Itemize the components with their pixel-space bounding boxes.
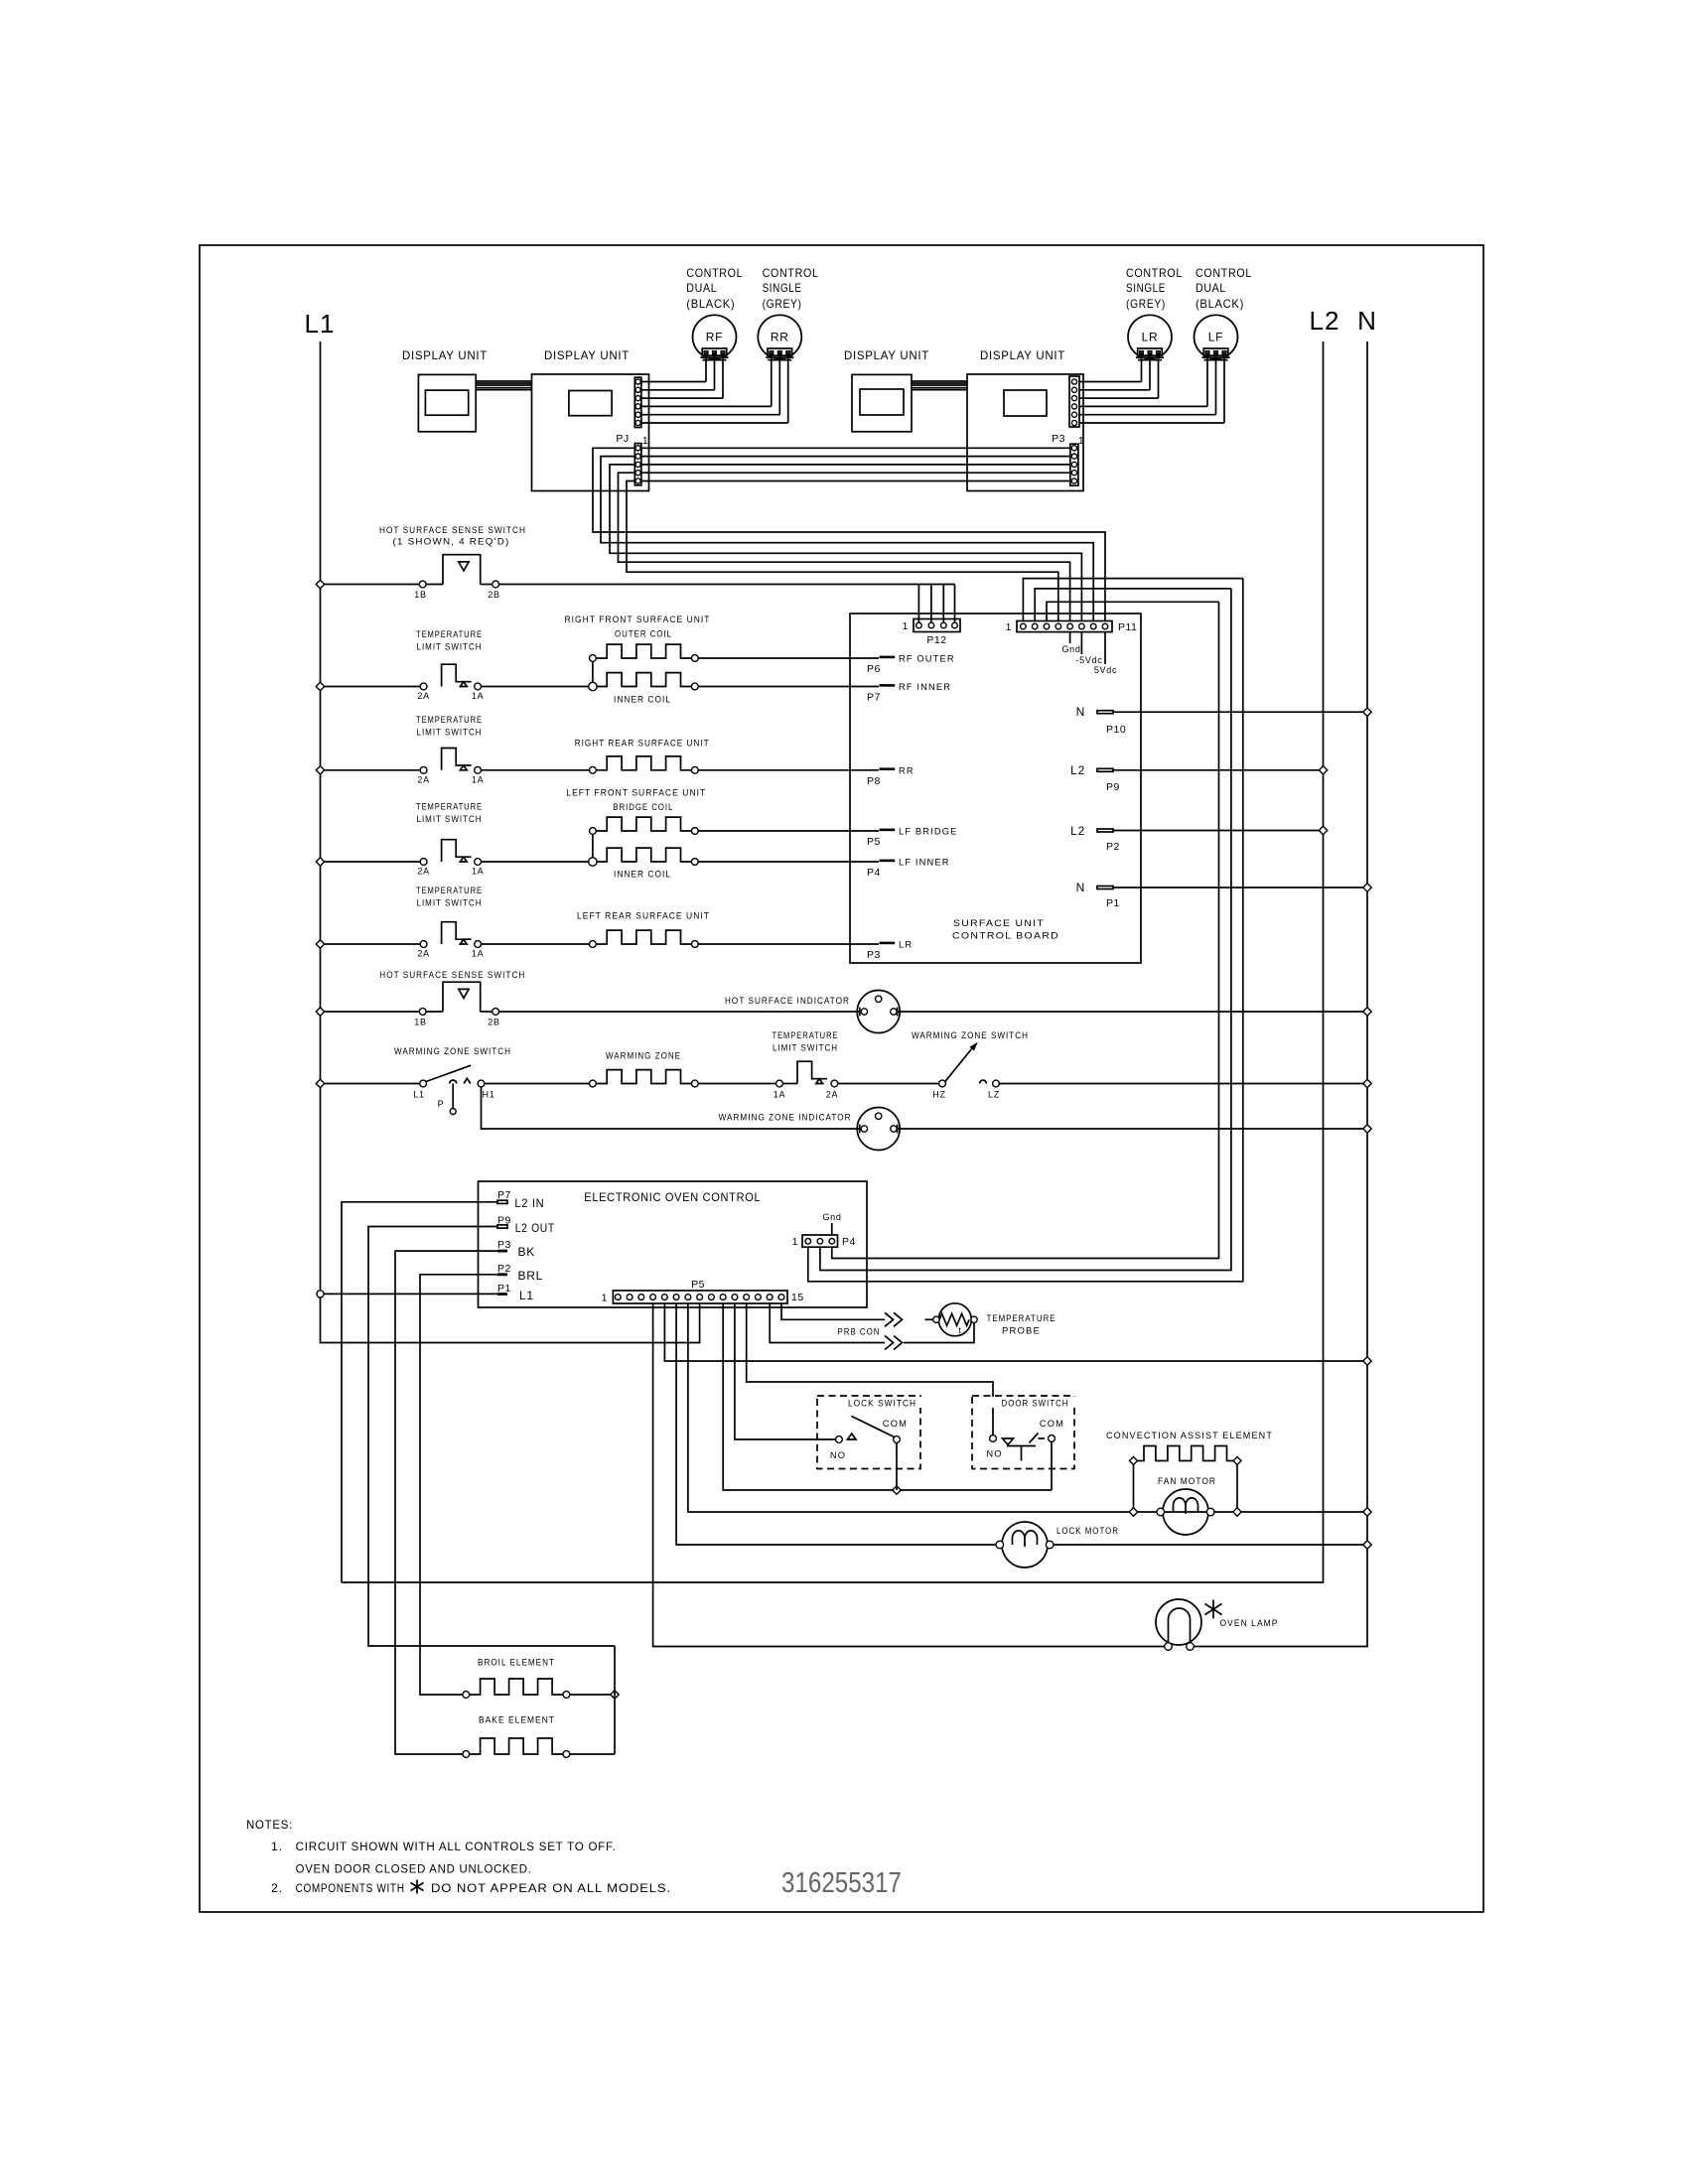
temperature probe body bbox=[938, 1303, 971, 1336]
svg-text:P: P bbox=[438, 1099, 445, 1109]
terminal bake left bbox=[463, 1751, 470, 1758]
wires down to P12 pins (4) bbox=[917, 585, 919, 622]
wire fan motor row bbox=[1138, 1511, 1233, 1513]
svg-text:NO: NO bbox=[830, 1450, 846, 1460]
wires PJ bus taps down and across to P11 pins 8..4 bbox=[593, 448, 1105, 620]
wire junction bridge to inner coil bbox=[592, 834, 594, 858]
warming zone switch L1 terminal bbox=[420, 1080, 427, 1087]
svg-text:SINGLE: SINGLE bbox=[1126, 281, 1166, 295]
svg-text:1: 1 bbox=[1078, 435, 1084, 447]
svg-text:P4: P4 bbox=[842, 1236, 856, 1248]
wire sense switch 2B to P12 header bbox=[499, 584, 955, 586]
door switch NO terminal bbox=[990, 1435, 997, 1442]
svg-text:PJ: PJ bbox=[616, 433, 629, 445]
door switch dashed box bbox=[972, 1396, 1074, 1469]
svg-text:CONTROL: CONTROL bbox=[1196, 266, 1252, 280]
svg-text:OUTER COIL: OUTER COIL bbox=[615, 629, 672, 639]
junction L1 x LR row bbox=[316, 940, 324, 948]
svg-text:DUAL: DUAL bbox=[686, 281, 717, 295]
svg-text:WARMING ZONE SWITCH: WARMING ZONE SWITCH bbox=[394, 1046, 511, 1056]
svg-text:1A: 1A bbox=[472, 691, 484, 701]
lock switch NO contact triangle bbox=[848, 1433, 857, 1439]
svg-text:2A: 2A bbox=[417, 774, 429, 784]
junction L1 x RR row bbox=[316, 766, 324, 774]
wire EOC P7 left and down (L2 IN) bbox=[342, 1202, 497, 1582]
door switch plunger bbox=[1007, 1445, 1036, 1447]
svg-text:2.: 2. bbox=[271, 1881, 283, 1895]
indicator lamp warming zone bbox=[857, 1108, 900, 1151]
svg-text:1: 1 bbox=[642, 435, 648, 447]
svg-text:2A: 2A bbox=[417, 691, 429, 701]
heating element LR coil bbox=[596, 930, 691, 944]
wire junction outer to inner coil bbox=[592, 661, 594, 683]
svg-text:LF BRIDGE: LF BRIDGE bbox=[899, 827, 957, 837]
heating element LF bridge coil bbox=[596, 817, 691, 831]
svg-text:LF INNER: LF INNER bbox=[899, 858, 950, 868]
junction broil x right bus bbox=[611, 1691, 619, 1699]
svg-text:OVEN LAMP: OVEN LAMP bbox=[1220, 1618, 1279, 1628]
wire LR coil to board P3 bbox=[698, 943, 879, 945]
wire convection left leg bbox=[1133, 1465, 1135, 1508]
svg-text:WARMING ZONE SWITCH: WARMING ZONE SWITCH bbox=[912, 1030, 1029, 1040]
svg-text:P6: P6 bbox=[867, 663, 881, 675]
svg-text:(BLACK): (BLACK) bbox=[1196, 297, 1244, 311]
heating element RF outer coil bbox=[596, 644, 691, 658]
terminal broil left bbox=[463, 1692, 470, 1699]
svg-text:P5: P5 bbox=[867, 836, 881, 848]
svg-text:1A: 1A bbox=[774, 1090, 785, 1100]
wire EOC P9 left and down (L2 OUT) bbox=[368, 1227, 615, 1647]
svg-text:DISPLAY UNIT: DISPLAY UNIT bbox=[844, 348, 929, 362]
junction P10 x N rail bbox=[1363, 708, 1371, 716]
warming zone switch contact bump P bbox=[450, 1080, 457, 1084]
junction L1 x warming row bbox=[316, 1079, 324, 1087]
wire broil right to bus bbox=[570, 1694, 611, 1696]
svg-text:LF: LF bbox=[1208, 331, 1224, 344]
wire limit switch 2A to warming switch HZ bbox=[838, 1083, 939, 1085]
svg-text:LEFT REAR SURFACE UNIT: LEFT REAR SURFACE UNIT bbox=[577, 911, 710, 921]
door switch contact marks bbox=[1003, 1438, 1014, 1444]
svg-text:1: 1 bbox=[602, 1293, 608, 1304]
svg-text:CONVECTION ASSIST ELEMENT: CONVECTION ASSIST ELEMENT bbox=[1106, 1431, 1273, 1440]
display unit 3 screen bbox=[860, 389, 904, 415]
svg-text:L1: L1 bbox=[305, 309, 336, 339]
display unit 2 screen bbox=[569, 391, 612, 416]
svg-text:P3: P3 bbox=[1052, 433, 1065, 445]
svg-text:TEMPERATURE: TEMPERATURE bbox=[416, 715, 483, 725]
border frame bbox=[200, 245, 1483, 1912]
svg-text:DUAL: DUAL bbox=[1196, 281, 1226, 295]
svg-text:HOT SURFACE SENSE SWITCH: HOT SURFACE SENSE SWITCH bbox=[379, 525, 526, 535]
svg-text:P9: P9 bbox=[1106, 781, 1120, 793]
svg-text:L1: L1 bbox=[413, 1090, 424, 1100]
junction L1 x RF row bbox=[316, 682, 324, 690]
svg-text:L2: L2 bbox=[1310, 306, 1340, 336]
wire RR coil to board P8 bbox=[698, 769, 879, 771]
svg-text:2B: 2B bbox=[488, 1018, 499, 1027]
junction L1 x indicator row bbox=[316, 1008, 324, 1016]
wires control RF to display unit 2 header bbox=[705, 352, 707, 382]
svg-text:INNER COIL: INNER COIL bbox=[614, 695, 671, 705]
svg-text:1A: 1A bbox=[472, 867, 484, 877]
board pin P6 (RF OUTER) bbox=[880, 656, 896, 659]
warming zone switch LZ terminal bbox=[993, 1080, 1000, 1087]
lock switch blade bbox=[852, 1417, 895, 1437]
wire LF inner coil to board P4 bbox=[698, 861, 879, 863]
svg-text:NO: NO bbox=[986, 1449, 1002, 1459]
wire hot surface indicator to N rail bbox=[898, 1011, 1363, 1013]
junction warming row x N rail bbox=[1363, 1079, 1371, 1087]
terminal probe right bbox=[971, 1316, 977, 1322]
svg-text:TEMPERATURE: TEMPERATURE bbox=[773, 1030, 839, 1040]
warming zone switch H1 terminal bbox=[478, 1080, 485, 1087]
wire P9 to L2 rail bbox=[1113, 769, 1319, 771]
svg-text:NOTES:: NOTES: bbox=[246, 1818, 293, 1832]
svg-text:HOT SURFACE INDICATOR: HOT SURFACE INDICATOR bbox=[725, 996, 850, 1006]
junction terminal RF inner coil left bbox=[589, 682, 597, 690]
wire sense switch 2B to hot surface indicator bbox=[499, 1011, 860, 1013]
wire RF limit switch to inner coil bbox=[482, 686, 590, 688]
svg-text:LIMIT SWITCH: LIMIT SWITCH bbox=[773, 1043, 838, 1053]
svg-text:WARMING ZONE: WARMING ZONE bbox=[606, 1051, 681, 1061]
svg-text:LZ: LZ bbox=[988, 1090, 1000, 1100]
junction lock COM x link bbox=[893, 1486, 901, 1494]
wire EOC P2 left and down (broil) bbox=[420, 1275, 497, 1695]
oven lamp filament loop bbox=[1169, 1608, 1191, 1643]
board pin P2 (L2) bbox=[1097, 829, 1113, 832]
svg-text:t: t bbox=[958, 1325, 961, 1335]
hot surface sense switch (top) bbox=[419, 581, 426, 588]
heating element warming zone bbox=[596, 1070, 691, 1084]
svg-text:N: N bbox=[1357, 306, 1377, 336]
svg-text:RF: RF bbox=[706, 331, 724, 344]
wires display unit 2 header to RF/RR control drops bbox=[641, 381, 706, 383]
wire P10 to N rail bbox=[1113, 711, 1363, 713]
svg-text:Gnd: Gnd bbox=[822, 1212, 841, 1222]
chevron connector PRB line 1 bbox=[885, 1312, 903, 1326]
wire L1 to RR limit switch bbox=[325, 769, 421, 771]
terminal RR coil left bbox=[590, 766, 597, 773]
warming zone switch blade bbox=[426, 1065, 471, 1081]
junction L1 x sense switch row bbox=[316, 580, 324, 588]
junction terminal LF inner coil left bbox=[589, 858, 597, 866]
wire bus PJ to P3 (5 lines) bbox=[641, 447, 1070, 449]
svg-text:2A: 2A bbox=[826, 1090, 838, 1100]
pin label Gnd under P11 pin5 bbox=[1069, 632, 1071, 643]
svg-text:BROIL ELEMENT: BROIL ELEMENT bbox=[478, 1658, 555, 1668]
svg-text:RR: RR bbox=[899, 765, 914, 775]
terminal LR coil left bbox=[590, 941, 597, 948]
indicator lamp hot surface bbox=[857, 991, 900, 1033]
svg-text:TEMPERATURE: TEMPERATURE bbox=[987, 1313, 1056, 1323]
wire H1 to warming zone element bbox=[485, 1083, 590, 1085]
svg-text:WARMING ZONE INDICATOR: WARMING ZONE INDICATOR bbox=[719, 1113, 852, 1123]
svg-text:LOCK SWITCH: LOCK SWITCH bbox=[848, 1399, 916, 1409]
svg-text:LIMIT SWITCH: LIMIT SWITCH bbox=[417, 814, 483, 824]
svg-text:DISPLAY UNIT: DISPLAY UNIT bbox=[544, 348, 630, 362]
fan motor bbox=[1163, 1489, 1208, 1535]
asterisk mark in note 2 bbox=[416, 1880, 418, 1894]
svg-text:1: 1 bbox=[903, 620, 909, 632]
terminal warming zone coil right bbox=[691, 1080, 698, 1087]
svg-text:L2 IN: L2 IN bbox=[514, 1196, 544, 1210]
svg-text:DISPLAY UNIT: DISPLAY UNIT bbox=[980, 348, 1065, 362]
svg-text:DISPLAY UNIT: DISPLAY UNIT bbox=[402, 348, 488, 362]
wire RR limit switch to RR coil bbox=[482, 769, 590, 771]
wires control RR to display unit 2 header bbox=[771, 352, 773, 406]
svg-text:CIRCUIT SHOWN WITH ALL CONTROL: CIRCUIT SHOWN WITH ALL CONTROLS SET TO O… bbox=[296, 1840, 617, 1853]
warming zone switch HZ blade bbox=[945, 1048, 972, 1081]
temperature limit switch warming zone bbox=[776, 1080, 783, 1087]
svg-text:COMPONENTS WITH: COMPONENTS WITH bbox=[296, 1881, 405, 1895]
svg-text:P3: P3 bbox=[497, 1239, 511, 1251]
svg-text:1: 1 bbox=[792, 1236, 798, 1248]
svg-text:1: 1 bbox=[1006, 621, 1012, 633]
terminal LR coil right bbox=[691, 941, 698, 948]
svg-text:P10: P10 bbox=[1106, 724, 1126, 736]
wire L1 to sense switch 1B bbox=[325, 584, 420, 586]
svg-text:COM: COM bbox=[883, 1419, 908, 1429]
connector display unit 2 control header (6 pins) bbox=[634, 377, 641, 427]
svg-text:HZ: HZ bbox=[932, 1090, 945, 1100]
wire warming element to limit switch 1A bbox=[698, 1083, 775, 1085]
board pin P4 (LF INNER) bbox=[880, 860, 896, 863]
lock switch NO terminal bbox=[836, 1436, 843, 1443]
svg-text:(1 SHOWN, 4 REQ'D): (1 SHOWN, 4 REQ'D) bbox=[393, 537, 510, 547]
wires display unit 4 header to LR/LF control drops bbox=[1079, 381, 1142, 383]
wire ribbon display unit 3 to display unit 4 bbox=[912, 380, 967, 382]
oven lamp bulb bbox=[1156, 1599, 1201, 1645]
display unit 4 box bbox=[967, 374, 1083, 491]
lock motor bbox=[1002, 1522, 1048, 1568]
svg-text:LR: LR bbox=[899, 940, 913, 950]
svg-text:RR: RR bbox=[771, 331, 789, 344]
svg-text:BAKE ELEMENT: BAKE ELEMENT bbox=[479, 1715, 555, 1725]
terminal LF bridge coil right bbox=[691, 828, 698, 835]
svg-text:-5Vdc: -5Vdc bbox=[1075, 655, 1102, 665]
svg-text:LR: LR bbox=[1142, 331, 1159, 344]
wire right bus vertical (L2 OUT to bake) bbox=[614, 1646, 616, 1754]
wire probe stub bbox=[925, 1318, 933, 1320]
label lock switch bbox=[839, 1397, 926, 1408]
svg-text:316255317: 316255317 bbox=[781, 1867, 902, 1899]
svg-text:H1: H1 bbox=[483, 1090, 495, 1100]
wire control rail B (P11 pin2 to P4 pin2) bbox=[820, 589, 1231, 1271]
svg-text:RF OUTER: RF OUTER bbox=[899, 654, 955, 664]
display unit 4 screen bbox=[1004, 390, 1047, 416]
svg-text:BRIDGE COIL: BRIDGE COIL bbox=[613, 802, 673, 812]
junction L1 x LF row bbox=[316, 858, 324, 866]
svg-text:HOT SURFACE SENSE SWITCH: HOT SURFACE SENSE SWITCH bbox=[379, 970, 525, 980]
wire L1 to LF limit switch bbox=[325, 861, 421, 863]
wire L1 to LR limit switch bbox=[325, 943, 421, 945]
heating element LF inner coil bbox=[596, 848, 691, 862]
svg-text:P12: P12 bbox=[926, 634, 946, 646]
warming zone switch LZ bump bbox=[980, 1080, 987, 1083]
terminal convection left bbox=[1130, 1457, 1138, 1465]
board pin P1 (N) bbox=[1097, 887, 1113, 889]
surface unit control board box bbox=[850, 614, 1141, 963]
lock switch COM terminal bbox=[894, 1436, 901, 1443]
wire probe return to PRB line 2 bbox=[904, 1323, 974, 1343]
svg-text:15: 15 bbox=[791, 1292, 804, 1303]
junction EOC P1 x L1 rail bbox=[317, 1291, 324, 1297]
terminal oven lamp left bbox=[1165, 1643, 1173, 1651]
svg-text:CONTROL: CONTROL bbox=[763, 266, 819, 280]
svg-text:FAN MOTOR: FAN MOTOR bbox=[1158, 1476, 1216, 1486]
junction indicator row x N rail bbox=[1363, 1008, 1371, 1016]
junction warming indicator x N rail bbox=[1363, 1125, 1371, 1133]
terminal probe left bbox=[933, 1316, 939, 1322]
wire P2 to L2 rail bbox=[1113, 830, 1319, 832]
svg-text:OVEN DOOR CLOSED AND UNLOCKED.: OVEN DOOR CLOSED AND UNLOCKED. bbox=[296, 1862, 532, 1876]
terminal oven lamp right bbox=[1187, 1643, 1195, 1651]
svg-text:P5: P5 bbox=[691, 1279, 705, 1291]
svg-text:L2: L2 bbox=[1070, 824, 1085, 838]
wire EOC P1 to L1 rail bbox=[321, 1293, 498, 1295]
wire P5 pin12 down to door switch NO bbox=[747, 1303, 993, 1434]
svg-text:RIGHT FRONT SURFACE UNIT: RIGHT FRONT SURFACE UNIT bbox=[565, 614, 711, 624]
terminal RF inner coil right bbox=[691, 683, 698, 690]
wire LR limit switch to LR coil bbox=[482, 943, 590, 945]
terminal broil right bbox=[563, 1692, 570, 1699]
svg-text:PRB CON: PRB CON bbox=[838, 1327, 881, 1337]
svg-text:5Vdc: 5Vdc bbox=[1094, 665, 1117, 675]
wire P5 pin11 down to lock switch NO bbox=[735, 1303, 836, 1439]
board pin P8 (RR) bbox=[880, 767, 896, 770]
wire EOC P3 left and down (bake) bbox=[395, 1251, 497, 1754]
svg-text:P7: P7 bbox=[497, 1189, 511, 1201]
wire ribbon display unit 1 to display unit 2 bbox=[476, 380, 531, 382]
pin label -5Vdc under P11 pin6 bbox=[1080, 632, 1082, 654]
svg-text:P1: P1 bbox=[1106, 897, 1120, 909]
svg-text:(GREY): (GREY) bbox=[763, 297, 802, 311]
svg-text:LIMIT SWITCH: LIMIT SWITCH bbox=[417, 898, 483, 908]
svg-text:CONTROL BOARD: CONTROL BOARD bbox=[952, 931, 1059, 941]
wire P5 pin7 down to fan motor row bbox=[688, 1303, 1129, 1512]
svg-text:INNER COIL: INNER COIL bbox=[614, 870, 671, 880]
wire P5 pin4 down to oven lamp row bbox=[653, 1303, 1165, 1647]
svg-text:PROBE: PROBE bbox=[1002, 1326, 1041, 1336]
connector P11 (8 pins) bbox=[1017, 621, 1112, 632]
svg-text:SINGLE: SINGLE bbox=[763, 281, 802, 295]
svg-text:1.: 1. bbox=[271, 1840, 283, 1853]
wire control rail A (P11 pin3 to P4 pin3) bbox=[832, 602, 1219, 1258]
board pin P5 (LF BRIDGE) bbox=[880, 829, 896, 832]
wires P11 pins 1-3 up and right to control rails bbox=[1023, 579, 1242, 621]
display unit 1 box bbox=[418, 374, 476, 431]
svg-text:L1: L1 bbox=[519, 1289, 534, 1302]
wire P5 pin10 down to lock/door COM link bbox=[723, 1303, 1052, 1490]
wire H1 drop to indicator row bbox=[482, 1087, 860, 1129]
svg-text:CONTROL: CONTROL bbox=[1126, 266, 1183, 280]
electronic oven control box bbox=[479, 1181, 868, 1307]
wire P5 pin6 down to lock motor row bbox=[676, 1303, 996, 1545]
connector P12 (4 pins) bbox=[914, 619, 960, 632]
svg-text:TEMPERATURE: TEMPERATURE bbox=[416, 802, 483, 812]
connector P4 (3 pins) bbox=[802, 1235, 838, 1247]
svg-text:DO NOT APPEAR ON ALL MODELS.: DO NOT APPEAR ON ALL MODELS. bbox=[431, 1881, 671, 1895]
wire P5 pin5 down then right to N rail bbox=[664, 1303, 1362, 1361]
board pin P3 (LR) bbox=[880, 942, 896, 945]
wire P1 to N rail bbox=[1113, 887, 1363, 888]
resistor zigzag in probe bbox=[939, 1313, 969, 1325]
control knob RR (single grey) bbox=[758, 315, 801, 358]
svg-text:(BLACK): (BLACK) bbox=[686, 297, 735, 311]
svg-text:TEMPERATURE: TEMPERATURE bbox=[416, 629, 483, 639]
wire control rail C (P11 pin1 to P4 pin1) bbox=[808, 579, 1243, 1282]
junction P1 x N rail bbox=[1363, 884, 1371, 891]
heating element convection assist bbox=[1138, 1446, 1233, 1461]
wire LZ to N rail bbox=[999, 1083, 1362, 1085]
svg-text:BRL: BRL bbox=[518, 1269, 544, 1283]
label door switch bbox=[992, 1397, 1079, 1408]
asterisk mark oven lamp bbox=[1212, 1600, 1214, 1619]
terminal warming zone coil left bbox=[590, 1080, 597, 1087]
wire N rail vertical, turns left at bottom into oven lamp row bbox=[1191, 341, 1368, 1647]
svg-text:Gnd: Gnd bbox=[1061, 644, 1080, 654]
warming zone switch pickup P bbox=[452, 1084, 454, 1109]
svg-text:RF INNER: RF INNER bbox=[899, 682, 951, 692]
svg-text:L2: L2 bbox=[1070, 763, 1085, 777]
svg-text:ELECTRONIC OVEN CONTROL: ELECTRONIC OVEN CONTROL bbox=[584, 1190, 761, 1204]
junction convection x fan row right bbox=[1233, 1508, 1241, 1516]
terminal RF outer coil right bbox=[691, 655, 698, 662]
heating element RR coil bbox=[596, 756, 691, 770]
svg-text:P3: P3 bbox=[867, 949, 881, 961]
display unit 3 box bbox=[852, 374, 912, 431]
wire L1 rail vertical, turns right at bottom to EOC P5 pin 8 bbox=[321, 341, 700, 1343]
svg-text:SURFACE UNIT: SURFACE UNIT bbox=[953, 918, 1045, 928]
control knob RF (dual black) bbox=[693, 315, 737, 358]
wire warming indicator to N rail bbox=[898, 1128, 1363, 1130]
wire lock COM down to link bbox=[896, 1442, 898, 1490]
junction P9 x L2 rail bbox=[1319, 766, 1327, 774]
board pin P9 (L2) bbox=[1097, 768, 1113, 771]
svg-text:RIGHT REAR SURFACE UNIT: RIGHT REAR SURFACE UNIT bbox=[575, 739, 710, 749]
svg-text:2A: 2A bbox=[417, 949, 429, 959]
svg-text:2A: 2A bbox=[417, 867, 429, 877]
svg-text:P11: P11 bbox=[1118, 621, 1137, 633]
svg-text:LEFT FRONT SURFACE UNIT: LEFT FRONT SURFACE UNIT bbox=[566, 788, 706, 798]
heating element bake bbox=[470, 1738, 563, 1754]
board pin P7 (RF INNER) bbox=[880, 684, 896, 687]
wire L1 to RF limit switch bbox=[325, 686, 421, 688]
svg-text:P7: P7 bbox=[867, 692, 881, 704]
wire LF limit switch to LF inner coil bbox=[482, 861, 590, 863]
wire L1 to sense switch 1B (lower) bbox=[325, 1011, 420, 1013]
svg-text:1A: 1A bbox=[472, 774, 484, 784]
wire bake right to bus bbox=[570, 1753, 615, 1755]
svg-text:LIMIT SWITCH: LIMIT SWITCH bbox=[417, 642, 483, 652]
pin label 5Vdc under P11 pin8 bbox=[1104, 632, 1106, 664]
terminal bake right bbox=[563, 1751, 570, 1758]
svg-text:P2: P2 bbox=[497, 1263, 511, 1275]
terminal LF bridge coil left bbox=[590, 828, 597, 835]
junction lock motor row x N rail bbox=[1363, 1541, 1371, 1549]
svg-text:1B: 1B bbox=[414, 590, 426, 600]
wire L1 to warming switch bbox=[325, 1083, 420, 1085]
wire RF inner coil to board P7 bbox=[698, 686, 879, 688]
display unit 1 screen bbox=[425, 390, 468, 415]
control knob LR (single grey) bbox=[1128, 315, 1172, 358]
wire door COM down to link bbox=[1051, 1441, 1053, 1490]
wire LF bridge coil to board P5 bbox=[698, 830, 879, 832]
svg-text:P4: P4 bbox=[867, 867, 881, 879]
junction pin5 line x N rail bbox=[1363, 1357, 1371, 1365]
wire P5 pin14 down to probe connector bbox=[770, 1303, 885, 1343]
svg-text:N: N bbox=[1076, 881, 1085, 894]
